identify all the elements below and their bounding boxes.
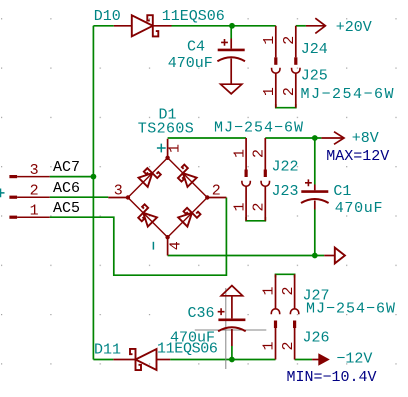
junction C36/bottom rail [229, 357, 235, 363]
svg-text:1: 1 [30, 202, 39, 219]
svg-text:MJ−254−6W: MJ−254−6W [306, 301, 396, 318]
output sheet flag [324, 248, 345, 264]
svg-text:2: 2 [280, 341, 297, 350]
wire J27 loop [276, 274, 295, 277]
connector J23 pin 1 [242, 181, 250, 221]
connector J22 pin 2 [264, 138, 267, 177]
bridge diode bottom-left [135, 204, 158, 227]
wire AC6 to bridge pin3 [50, 196, 109, 198]
svg-text:MJ−254−6W: MJ−254−6W [301, 86, 396, 103]
junction D10/C4/J24 [229, 23, 235, 29]
svg-text:−12V: −12V [336, 351, 372, 368]
svg-text:D11: D11 [94, 341, 121, 358]
svg-text:1: 1 [261, 87, 278, 96]
power flag -12V [312, 353, 330, 366]
connector J23 pin 2 [261, 181, 269, 221]
svg-text:J26: J26 [303, 330, 330, 347]
bridge minus mark [152, 242, 154, 250]
ground below C4 [221, 84, 242, 94]
wire bottom rail D11 left [93, 359, 113, 361]
svg-text:C4: C4 [187, 38, 205, 55]
connector AC6 pin [9, 196, 49, 199]
wire J23 loop [246, 217, 265, 221]
power flag +20V [306, 18, 326, 33]
junction AC7/bus [91, 174, 97, 180]
capacitor C1 [301, 179, 329, 209]
bridge diode top-left [138, 165, 161, 188]
bridge diode bottom-right [178, 204, 201, 227]
svg-text:J23: J23 [272, 183, 299, 200]
wire C1 bottom [314, 210, 316, 256]
svg-text:4: 4 [168, 241, 185, 250]
svg-text:470uF: 470uF [168, 55, 213, 72]
connector AC7 pin [9, 175, 49, 178]
wire J26 pin2 to -12V [295, 359, 313, 361]
connector J26 pin 1 [274, 321, 277, 360]
svg-text:1: 1 [231, 149, 248, 158]
svg-text:MAX=12V: MAX=12V [326, 148, 389, 165]
svg-text:+8V: +8V [352, 130, 379, 147]
wire D10 cathode to J24 pin1 [172, 25, 276, 27]
connector AC5 pin [9, 216, 49, 219]
svg-text:J24: J24 [301, 41, 328, 58]
bridge diode top-right [174, 165, 197, 188]
wire main vertical bus [92, 26, 94, 360]
wire C1 top [314, 138, 316, 185]
connector J26 pin 2 [293, 321, 296, 360]
svg-text:C1: C1 [333, 183, 351, 200]
connector J27 pin 2 [290, 274, 298, 314]
wire J25 loop [276, 104, 296, 108]
svg-text:AC7: AC7 [53, 159, 80, 176]
capacitor C36 [218, 296, 246, 346]
wire J22 pin2 to +8V [265, 137, 321, 139]
svg-text:D10: D10 [94, 8, 121, 25]
bridge plus mark [157, 144, 166, 153]
capacitor C4 [217, 39, 245, 85]
svg-text:1: 1 [261, 36, 278, 45]
svg-text:1: 1 [261, 341, 278, 350]
connector J25 pin 1 [272, 68, 280, 108]
bridge pin 1 [167, 139, 169, 158]
bridge rectifier D1 [108, 139, 226, 256]
svg-text:1: 1 [167, 144, 184, 153]
svg-text:2: 2 [251, 149, 268, 158]
power flag +8V [321, 132, 344, 145]
svg-text:AC5: AC5 [53, 200, 80, 217]
svg-text:C36: C36 [188, 305, 215, 322]
svg-text:J25: J25 [301, 68, 328, 85]
svg-text:+20V: +20V [336, 19, 372, 36]
wire bridge pin1 to J22 pin1 [168, 137, 247, 139]
wire bridge pin4 rail to output flag [168, 255, 325, 257]
svg-text:2: 2 [281, 36, 298, 45]
svg-text:2: 2 [281, 87, 298, 96]
wire AC7 to bus [50, 176, 94, 178]
junction +8V/C1 [312, 135, 318, 141]
ground above C36 [221, 286, 242, 296]
svg-text:470uF: 470uF [335, 200, 384, 217]
connector J22 pin 1 [245, 138, 248, 177]
svg-text:2: 2 [280, 286, 297, 295]
svg-text:3: 3 [30, 162, 39, 179]
wire D11 anode to J26 pin1 [170, 359, 275, 361]
svg-text:MIN=−10.4V: MIN=−10.4V [287, 369, 377, 386]
wire AC5 to bridge pin2 [50, 198, 227, 276]
bridge pin 4 [167, 237, 169, 255]
connector J25 pin 2 [292, 68, 300, 108]
connector J27 pin 1 [271, 274, 279, 314]
connector J24 pin 1 [274, 26, 277, 65]
svg-text:2: 2 [251, 202, 268, 211]
wire D10 anode [93, 25, 113, 27]
cursor crosshair [195, 288, 266, 369]
svg-text:2: 2 [30, 182, 39, 199]
bridge pin 2 [207, 197, 226, 199]
wire J24 pin2 to +20V [296, 25, 306, 27]
junction rail/C1 bottom [312, 253, 318, 259]
svg-text:11EQS06: 11EQS06 [157, 341, 218, 358]
svg-text:TS260S: TS260S [138, 120, 194, 137]
svg-text:1: 1 [261, 286, 278, 295]
svg-text:AC6: AC6 [53, 180, 80, 197]
wire C36 bottom stub [231, 346, 233, 360]
svg-text:3: 3 [114, 183, 123, 200]
svg-text:MJ−254−6W: MJ−254−6W [214, 119, 304, 136]
bridge pin 3 [108, 197, 128, 199]
connector J24 pin 2 [294, 26, 297, 65]
svg-text:1: 1 [231, 202, 248, 211]
diode D11 [113, 349, 170, 370]
svg-text:11EQS06: 11EQS06 [162, 8, 225, 25]
svg-text:2: 2 [212, 183, 221, 200]
wire C4 top stub [230, 26, 232, 39]
diode D10 [114, 15, 172, 36]
left edge + mark [0, 189, 5, 198]
svg-text:J22: J22 [272, 158, 299, 175]
